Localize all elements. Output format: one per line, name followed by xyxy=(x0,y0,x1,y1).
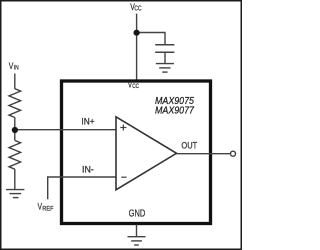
net VIN label xyxy=(9,61,19,72)
resistor R1 xyxy=(9,89,21,118)
ground (GND pin) xyxy=(128,237,146,245)
svg-text:IN-: IN- xyxy=(82,165,94,175)
svg-text:IN+: IN+ xyxy=(81,116,94,126)
net VCC (top) label xyxy=(130,2,141,13)
wire R1 to node A xyxy=(14,117,16,140)
output terminal xyxy=(231,151,236,156)
junction dot node A xyxy=(12,127,18,133)
ground (capacitor) xyxy=(156,64,174,73)
junction dot (VCC node) xyxy=(134,30,140,36)
comparator U1 xyxy=(116,117,177,190)
wire VIN stub xyxy=(14,74,16,89)
pin label VCC (inside box) xyxy=(128,80,140,90)
wire to bypass capacitor xyxy=(137,33,165,45)
wire GND xyxy=(136,225,138,237)
wire node A to IN+ xyxy=(15,129,116,131)
svg-text:OUT: OUT xyxy=(181,140,197,150)
svg-text:CC: CC xyxy=(134,6,141,13)
resistor R2 xyxy=(9,140,21,169)
svg-text:V: V xyxy=(9,61,14,71)
wire VREF to IN- xyxy=(48,177,116,199)
svg-text:IN: IN xyxy=(14,65,19,72)
plus input marker xyxy=(120,125,126,131)
minus input marker xyxy=(121,176,126,178)
svg-text:CC: CC xyxy=(132,83,139,90)
ground (R2) xyxy=(6,190,24,198)
svg-text:MAX9077: MAX9077 xyxy=(155,106,195,117)
wire VCC vertical xyxy=(136,14,138,80)
IC box U1 xyxy=(62,81,211,224)
capacitor C1 xyxy=(155,45,174,64)
svg-text:REF: REF xyxy=(42,205,53,212)
net VREF label xyxy=(38,202,54,213)
wire OUT xyxy=(176,153,230,155)
svg-text:GND: GND xyxy=(129,209,146,220)
wire R2 to ground xyxy=(14,169,16,189)
border frame xyxy=(1,1,242,250)
